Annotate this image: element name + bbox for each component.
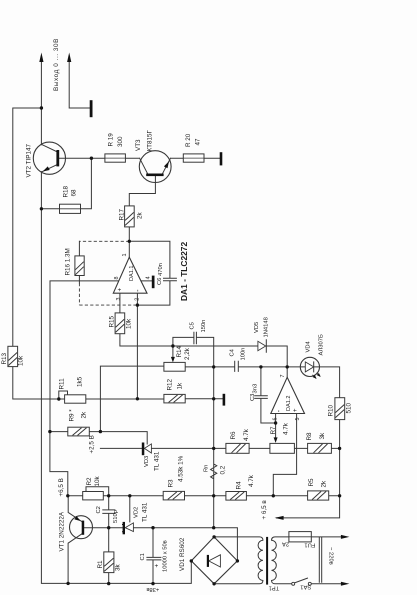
- svg-text:150n: 150n: [201, 320, 207, 333]
- svg-text:R17: R17: [118, 208, 125, 220]
- svg-text:10k: 10k: [18, 355, 25, 366]
- svg-text:R16 1.3M: R16 1.3M: [65, 248, 72, 275]
- svg-text:VT3: VT3: [135, 139, 142, 151]
- svg-text:+: +: [293, 408, 299, 412]
- svg-text:2k: 2k: [80, 411, 87, 419]
- svg-text:1: 1: [122, 254, 128, 257]
- svg-text:4.53k 1%: 4.53k 1%: [177, 455, 184, 482]
- svg-text:R4: R4: [236, 481, 243, 490]
- svg-text:10k: 10k: [126, 318, 133, 329]
- svg-text:1k5: 1k5: [76, 376, 83, 387]
- svg-text:7: 7: [280, 375, 286, 378]
- svg-text:1k: 1k: [176, 382, 183, 390]
- svg-text:R13: R13: [1, 352, 8, 364]
- svg-text:68: 68: [70, 189, 77, 197]
- svg-text:4.7k: 4.7k: [243, 428, 250, 441]
- svg-text:C1: C1: [140, 553, 146, 560]
- svg-text:+ 6,5 в: + 6,5 в: [261, 500, 268, 520]
- svg-text:VD2: VD2: [134, 507, 140, 518]
- svg-text:R3: R3: [168, 479, 175, 488]
- svg-text:R14: R14: [176, 345, 183, 357]
- svg-text:3n3: 3n3: [253, 384, 259, 394]
- svg-text:R5: R5: [308, 478, 315, 487]
- svg-text:VD3: VD3: [144, 456, 150, 467]
- svg-text:DA1 - TLC2272: DA1 - TLC2272: [179, 242, 189, 301]
- svg-text:R1: R1: [97, 560, 104, 569]
- svg-text:+2,5 В: +2,5 В: [88, 435, 95, 453]
- svg-text:КТ815Г: КТ815Г: [147, 129, 154, 151]
- svg-text:510p: 510p: [113, 510, 119, 523]
- svg-text:10k: 10k: [94, 475, 101, 486]
- svg-text:C3: C3: [250, 394, 256, 401]
- svg-text:VT2 TIP147: VT2 TIP147: [26, 144, 33, 178]
- svg-text:VT1 2N2222A: VT1 2N2222A: [59, 511, 66, 551]
- svg-text:6: 6: [273, 418, 279, 421]
- svg-text:2k: 2k: [321, 480, 328, 488]
- svg-text:R9 *: R9 *: [68, 409, 75, 422]
- svg-text:+6,5 В: +6,5 В: [58, 478, 65, 496]
- svg-text:VD5: VD5: [254, 322, 260, 333]
- svg-text:R12: R12: [167, 378, 174, 390]
- svg-text:R6: R6: [230, 431, 237, 440]
- svg-text:VD4: VD4: [305, 340, 311, 352]
- svg-text:R10: R10: [328, 404, 335, 416]
- svg-text:0,2: 0,2: [220, 465, 227, 474]
- svg-text:5: 5: [295, 418, 301, 421]
- svg-text:R15: R15: [109, 315, 116, 327]
- svg-text:ТР1: ТР1: [269, 584, 280, 590]
- svg-text:4: 4: [146, 276, 152, 279]
- svg-text:2: 2: [135, 298, 141, 301]
- svg-text:R2: R2: [86, 477, 93, 486]
- svg-text:3k: 3k: [319, 432, 326, 440]
- svg-text:C5: C5: [189, 322, 195, 329]
- svg-text:VD1 RS602: VD1 RS602: [179, 537, 186, 571]
- svg-text:TL 431: TL 431: [153, 451, 160, 471]
- svg-text:+38в: +38в: [146, 586, 159, 592]
- svg-text:R11: R11: [58, 378, 65, 390]
- svg-text:2,2k: 2,2k: [184, 347, 191, 360]
- svg-text:3: 3: [116, 298, 122, 301]
- svg-text:8: 8: [114, 277, 120, 280]
- svg-text:3k: 3k: [114, 563, 121, 571]
- svg-text:R18: R18: [63, 185, 70, 197]
- svg-text:300: 300: [117, 136, 124, 147]
- svg-text:2А: 2А: [282, 541, 289, 547]
- svg-text:R7: R7: [270, 426, 277, 435]
- svg-text:2k: 2k: [137, 211, 144, 219]
- svg-text:TL 431: TL 431: [142, 502, 149, 522]
- svg-text:C4: C4: [230, 348, 236, 356]
- svg-text:FU1: FU1: [304, 542, 315, 548]
- svg-text:R8: R8: [306, 432, 313, 441]
- svg-text:100n: 100n: [241, 348, 247, 361]
- svg-text:R 19: R 19: [107, 133, 114, 147]
- svg-text:~ 220в: ~ 220в: [328, 547, 334, 565]
- svg-text:4.7k: 4.7k: [248, 474, 255, 487]
- svg-text:470n: 470n: [158, 263, 164, 276]
- svg-text:C2: C2: [96, 506, 102, 513]
- svg-text:DA1.2: DA1.2: [286, 395, 292, 411]
- svg-text:+: +: [118, 288, 124, 292]
- svg-text:R 20: R 20: [185, 133, 192, 147]
- svg-text:Rn: Rn: [203, 465, 209, 472]
- svg-text:4.7k: 4.7k: [282, 422, 289, 435]
- svg-text:10000 x 50в: 10000 x 50в: [163, 540, 169, 572]
- svg-text:1N4148: 1N4148: [263, 317, 269, 337]
- svg-text:C6: C6: [157, 278, 163, 285]
- svg-text:47: 47: [195, 138, 202, 146]
- svg-text:Выход 0 ... 30В: Выход 0 ... 30В: [53, 38, 60, 91]
- svg-text:SА1: SА1: [300, 584, 311, 590]
- svg-text:DA1.1: DA1.1: [129, 265, 135, 281]
- svg-text:АЛ307Б: АЛ307Б: [319, 334, 325, 355]
- svg-text:510: 510: [346, 402, 353, 413]
- svg-text:+: +: [155, 564, 161, 568]
